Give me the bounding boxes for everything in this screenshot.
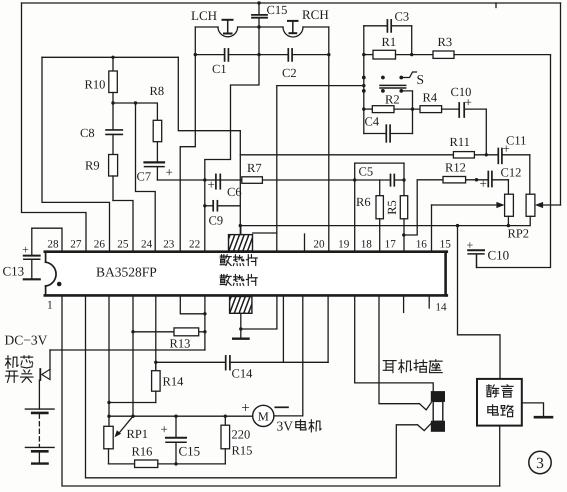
capacitor C1 [195, 49, 288, 61]
svg-text:18: 18 [361, 238, 373, 250]
wire playback head line [195, 26, 328, 28]
wire inner loop left down to pin 26 [42, 57, 110, 250]
wire C11 to RP2 top right [529, 155, 531, 194]
label R11 [450, 135, 470, 149]
label BA3528FP [96, 265, 157, 280]
jack body top terminal [431, 392, 444, 402]
label C15 bottom [179, 444, 201, 459]
label RP2 [508, 227, 530, 241]
svg-text:R2: R2 [385, 93, 400, 107]
label C15 bottom polarity + [161, 422, 168, 437]
svg-text:R13: R13 [170, 337, 191, 351]
capacitor C15 top [252, 3, 267, 27]
wire pin 8 column [204, 296, 206, 350]
potentiometer RP1 [104, 416, 133, 464]
wire pin 12 to jack sleeve [355, 296, 434, 392]
resistor R9 [109, 155, 118, 201]
resistor R6 [376, 180, 383, 251]
wire R12 feed from pin 16 node [404, 180, 443, 235]
capacitor C9 [205, 201, 241, 211]
label LCH [191, 8, 217, 23]
svg-text:R15: R15 [232, 444, 253, 458]
wire R3 right column down and left to C10 [477, 55, 551, 268]
resistor R2 [364, 106, 420, 113]
node junction C5 right [402, 178, 405, 181]
wire LCH down to pin 23 [180, 27, 195, 251]
svg-text:15: 15 [440, 238, 452, 250]
label R6 [356, 195, 371, 209]
wire C12 to RP2 top left [507, 180, 509, 194]
switch S contacts [362, 76, 403, 93]
wire main bias rail y180 [157, 179, 404, 181]
svg-text:C6: C6 [227, 185, 242, 199]
wire heatsink bottom to pin 10 [241, 296, 277, 329]
resistor R1 [364, 50, 433, 59]
svg-text:C15: C15 [179, 444, 201, 459]
capacitor C11 electrolytic [498, 149, 502, 164]
wire C5 loop top [355, 162, 404, 164]
svg-text:26: 26 [94, 238, 106, 250]
wire C15 column down then left to pin 22 net [205, 27, 259, 251]
node junction pins 6-7 [203, 312, 206, 315]
wire switch feed [277, 85, 364, 87]
node junction motor rail left [107, 415, 110, 418]
svg-text:R8: R8 [150, 84, 165, 98]
resistor R14 [152, 362, 161, 402]
node junction C14 left [154, 361, 157, 364]
label C8 [80, 126, 95, 140]
svg-text:C12: C12 [501, 166, 522, 180]
svg-text:RP2: RP2 [508, 227, 530, 241]
svg-text:+: + [166, 165, 173, 180]
wire pin 3 column [108, 296, 110, 426]
wire top border rail [22, 2, 561, 4]
label R14 [163, 375, 185, 389]
svg-text:C7: C7 [137, 170, 152, 184]
svg-text:R1: R1 [382, 35, 397, 49]
wire R10 node to R8 top [113, 103, 157, 120]
svg-text:RP1: RP1 [127, 427, 149, 441]
node junction R11 right [485, 153, 488, 156]
head core symbol RCH [288, 21, 298, 33]
label 3V motor [277, 419, 322, 434]
label pin 1 [47, 300, 53, 312]
label C3 [395, 10, 410, 24]
node junction rail / mute column [456, 224, 459, 227]
switch S bars [380, 85, 406, 88]
wire mute to ground [522, 403, 544, 416]
wire R9 bottom to pin 25 [113, 201, 133, 251]
node junction C10 lower top [475, 178, 478, 181]
node junction R1 right [410, 53, 413, 56]
label R1 [382, 35, 397, 49]
capacitor C2 [288, 49, 329, 61]
label R16 [132, 445, 153, 459]
node junction C6 left [203, 178, 206, 181]
wire mute bottom to rail [499, 426, 501, 486]
label RP1 [127, 427, 149, 441]
svg-text:+: + [241, 401, 249, 417]
svg-text:+: + [467, 238, 474, 252]
wire C5 loop left down to pin 19 [354, 163, 356, 250]
capacitor C10 upper electrolytic [459, 103, 486, 117]
svg-text:S: S [417, 72, 425, 87]
node junction R13 left [131, 330, 134, 333]
svg-text:1: 1 [47, 300, 53, 312]
head core symbol LCH [223, 20, 233, 34]
resistor R7 [242, 177, 263, 184]
node junction R10 bottom [111, 101, 114, 104]
svg-text:20: 20 [313, 238, 325, 250]
label R13 [170, 337, 191, 351]
jack body bottom terminal [431, 421, 444, 431]
capacitor C14 [156, 296, 328, 370]
label C10 upper [451, 85, 472, 99]
svg-text:C1: C1 [212, 62, 227, 76]
svg-text:3: 3 [536, 455, 544, 472]
label C12 polarity + [480, 176, 487, 191]
label R12 [445, 161, 466, 175]
node junction RCH / C2 [327, 53, 330, 56]
svg-text:BA3528FP: BA3528FP [96, 265, 157, 280]
wire rail to mute circuit [458, 226, 501, 379]
pin numbers top row [47, 238, 451, 250]
wire pin 28 loop [32, 228, 62, 250]
node junction motor rail pin4 [131, 415, 134, 418]
battery BT1 [25, 380, 54, 463]
wire inner loop right to node over C9 [178, 57, 240, 130]
svg-text:R7: R7 [247, 161, 262, 175]
label R9 [85, 159, 100, 173]
wire arrow from right rail into RP2 wiper [535, 202, 561, 208]
wire vertical node 240 to heatsink [239, 131, 241, 235]
jack contact spring lower [418, 423, 432, 430]
label C11 [506, 134, 526, 148]
head gap bump RCH [283, 27, 303, 37]
svg-text:C10: C10 [488, 248, 510, 263]
wire pin 4 column [132, 296, 134, 416]
capacitor C6 electrolytic [216, 174, 220, 188]
label heatsink bottom [220, 275, 257, 286]
label C10 lower polarity + [467, 238, 474, 252]
label R7 [247, 161, 262, 175]
svg-text:+: + [161, 422, 168, 437]
node junction wireA left [107, 401, 110, 404]
wire motor right to pin 11 [274, 296, 303, 416]
wire pin 5 column [155, 296, 157, 371]
svg-text:27: 27 [70, 238, 82, 250]
label R5 rotated [385, 200, 399, 215]
label C6 [227, 185, 242, 199]
node junction R10 top [111, 56, 114, 59]
wire pin 9 column [282, 296, 284, 362]
capacitor C13 electrolytic [24, 228, 40, 279]
svg-text:R10: R10 [85, 78, 106, 92]
switch power contact [40, 350, 50, 380]
svg-text:C4: C4 [365, 115, 380, 129]
node junction R1 left [362, 53, 365, 56]
svg-text:R4: R4 [423, 91, 438, 105]
wire pin 6-7 link [180, 296, 205, 314]
label motor polarity + [241, 401, 249, 417]
wire R11 rail [240, 154, 530, 156]
label R3 [438, 35, 453, 49]
label R15 [232, 444, 253, 458]
label machine switch line2 [6, 370, 33, 382]
svg-text:+: + [480, 176, 487, 191]
wire RCH down to pin 20 [328, 27, 330, 251]
label RCH [302, 7, 329, 22]
capacitor C10 lower electrolytic [468, 250, 484, 267]
pin stub 403 [403, 296, 405, 312]
svg-text:C11: C11 [506, 134, 526, 148]
svg-text:R6: R6 [356, 195, 371, 209]
label DC-3V [5, 333, 48, 348]
label C14 [232, 367, 254, 381]
svg-text:R14: R14 [163, 375, 185, 389]
svg-text:R11: R11 [450, 135, 470, 149]
jack body barrel [433, 401, 443, 421]
node junction R2 right [411, 107, 414, 110]
wire right border rail [560, 3, 562, 205]
battery negative terminal bar [32, 462, 47, 464]
svg-text:25: 25 [117, 238, 129, 250]
op-amp IC U1 BA3528FP body [45, 252, 447, 296]
node junction rail / heatsink column [239, 224, 242, 227]
wire left border rail down to pin 27 [22, 3, 87, 251]
svg-text:R12: R12 [445, 161, 466, 175]
ground heatsink bottom [233, 338, 248, 340]
svg-text:C3: C3 [395, 10, 410, 24]
svg-text:17: 17 [385, 238, 397, 250]
svg-text:R5: R5 [385, 200, 399, 215]
node junction switch feed [362, 84, 365, 87]
node junction C15 top [174, 415, 177, 418]
resistor R12 [443, 177, 488, 183]
motor M1 3V [253, 405, 274, 426]
label C15 top [267, 3, 288, 17]
capacitor C3 [364, 20, 412, 32]
heatsink tab bottom hatched [225, 296, 260, 339]
label C9 [209, 214, 224, 228]
figure number 3 circled [529, 451, 551, 473]
wire node 135 down to pin 24 [136, 103, 156, 251]
resistor R3 [433, 51, 551, 58]
svg-text:+: + [208, 177, 215, 192]
resistor R11 [453, 152, 474, 158]
svg-text:24: 24 [141, 238, 153, 250]
resistor R8 [153, 120, 162, 161]
node junction C1 left [194, 53, 197, 56]
svg-text:C9: C9 [209, 214, 224, 228]
svg-text:C2: C2 [282, 66, 297, 80]
switch S lever to label [401, 72, 416, 78]
svg-text:C8: C8 [80, 126, 95, 140]
potentiometer RP2 element left [505, 194, 514, 227]
svg-text:M: M [258, 410, 269, 424]
svg-text:16: 16 [416, 238, 428, 250]
resistor R4 [420, 106, 459, 113]
node junction C12 left [475, 178, 478, 181]
label C12 [501, 166, 522, 180]
node stub on top rail [495, 3, 497, 8]
wire C3 loop left [363, 26, 365, 134]
capacitor C12 electrolytic [488, 172, 508, 187]
wire pin 15 tick to RP2 wiper arrow [432, 202, 505, 251]
svg-text:23: 23 [163, 238, 175, 250]
wire heatsink to pin 21 [253, 232, 277, 234]
capacitor C8 [106, 103, 122, 155]
wire switch to R13 node [50, 349, 205, 351]
capacitor C4 [364, 125, 413, 142]
capacitor C7 electrolytic [145, 162, 165, 180]
svg-text:C5: C5 [359, 165, 374, 179]
label heatsink top [220, 255, 257, 266]
label C13 [3, 264, 25, 279]
label C10 lower [488, 248, 510, 263]
label headphone jack [383, 360, 442, 373]
wire pin 13 to jack tip contact [379, 296, 420, 404]
capacitor C5 [391, 175, 395, 186]
svg-text:LCH: LCH [191, 8, 217, 23]
potentiometer RP1 wiper arrowhead [115, 430, 122, 437]
svg-text:C15: C15 [267, 3, 288, 17]
resistor R5 [400, 163, 407, 250]
svg-text:C10: C10 [451, 85, 472, 99]
potentiometer RP2 element right [526, 194, 535, 225]
svg-text:R16: R16 [132, 445, 153, 459]
svg-text:C13: C13 [3, 264, 25, 279]
pin stub 14 [428, 296, 430, 308]
label S [417, 72, 425, 87]
node junction head line / C15 [257, 25, 260, 28]
wire motor rail y416 [109, 415, 253, 417]
wire pin 1 to bottom rail [62, 296, 500, 486]
label C7 [137, 170, 152, 184]
label C13 polarity + [22, 243, 29, 257]
node junction R2 left [362, 107, 365, 110]
mute circuit box [477, 379, 522, 426]
node junction heatsink bottom [239, 327, 242, 330]
resistor R13 [133, 328, 205, 336]
jack contact spring upper [420, 403, 432, 410]
label mute line1 [487, 385, 514, 397]
capacitor C15 bottom electrolytic [166, 416, 186, 465]
label C11 polarity + [503, 141, 510, 156]
node junction C9 left [203, 204, 206, 207]
label motor polarity - [275, 406, 288, 408]
label C2 [282, 66, 297, 80]
label mute line2 [488, 405, 513, 417]
resistor R16 [109, 460, 226, 468]
wire C3 loop right [411, 26, 413, 55]
label C10 upper polarity + [465, 95, 472, 110]
svg-text:C14: C14 [232, 367, 254, 381]
wire ground rail y225 [240, 225, 530, 227]
label R15 value 220 [232, 428, 251, 442]
svg-text:14: 14 [435, 302, 447, 314]
svg-text:28: 28 [47, 238, 59, 250]
node junction C15 column / C1 row [257, 53, 260, 56]
label R10 [85, 78, 106, 92]
label C5 [359, 165, 374, 179]
node junction top rail / C15 [257, 1, 260, 4]
head gap bump LCH [218, 27, 238, 37]
resistor R15 [221, 416, 230, 464]
svg-text:RCH: RCH [302, 7, 329, 22]
wire R14 bottom to pin3 column [109, 402, 156, 404]
svg-text:220: 220 [232, 428, 251, 442]
label R2 [385, 93, 400, 107]
wire C10 upper to R11 node [485, 109, 487, 155]
wire inner loop top (R10 rail) [42, 56, 178, 58]
svg-text:22: 22 [189, 238, 200, 250]
node junction on R8 feed [134, 101, 137, 104]
pin 1 index dot [57, 282, 62, 287]
node junction R13 right [203, 330, 206, 333]
svg-text:+: + [22, 243, 29, 257]
heatsink tab top hatched [224, 226, 259, 252]
wire pin 21 column [276, 86, 278, 251]
pin tick 20 left [304, 234, 306, 251]
ground mute [535, 416, 552, 419]
label R8 [150, 84, 165, 98]
wire pin 2 to second bottom rail [86, 296, 418, 478]
resistor R10 [109, 57, 118, 103]
svg-text:R3: R3 [438, 35, 453, 49]
node junction R15 top [224, 415, 227, 418]
node junction pin16 jog [402, 233, 405, 236]
svg-text:DC−3V: DC−3V [5, 333, 48, 348]
label machine switch line1 [6, 356, 33, 369]
svg-text:R9: R9 [85, 159, 100, 173]
label pin 14 [435, 302, 447, 314]
node junction C5 left [353, 178, 356, 181]
svg-text:3V: 3V [277, 419, 294, 434]
label C4 [365, 115, 380, 129]
label C1 [212, 62, 227, 76]
wire switch to R2 output [401, 91, 412, 134]
svg-text:19: 19 [338, 238, 350, 250]
label C7 polarity + [166, 165, 173, 180]
label R4 [423, 91, 438, 105]
label C6 polarity + [208, 177, 215, 192]
